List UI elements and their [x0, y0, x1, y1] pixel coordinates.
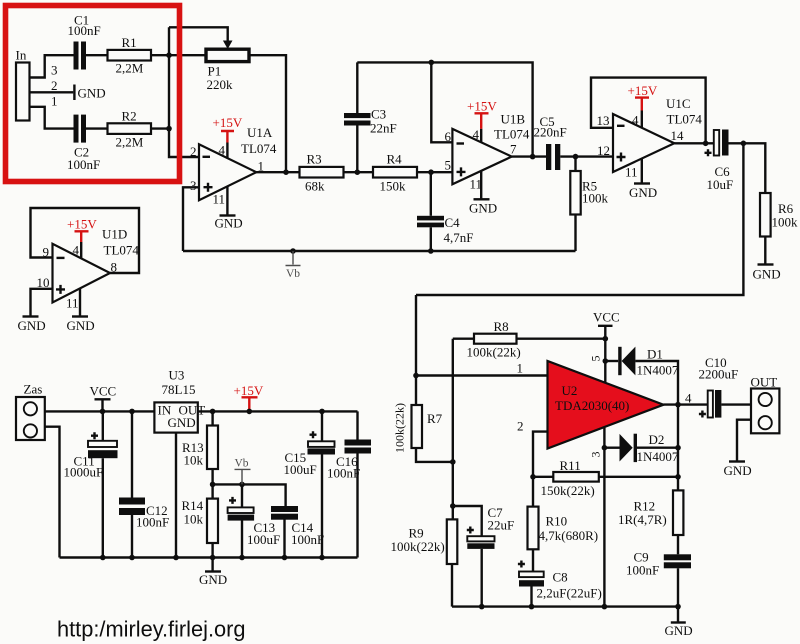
- svg-text:10k: 10k: [184, 453, 204, 468]
- svg-text:GND: GND: [168, 415, 196, 430]
- resistor R5: [570, 171, 580, 215]
- wire amp bottom rail: [452, 605, 678, 607]
- svg-text:220nF: 220nF: [534, 125, 567, 140]
- svg-text:R3: R3: [307, 152, 322, 167]
- wire C1 to R1: [86, 54, 108, 56]
- junction: [530, 154, 536, 160]
- plus sign U1B: [457, 167, 466, 176]
- svg-text:+15V: +15V: [213, 115, 243, 130]
- svg-text:100nF: 100nF: [291, 532, 324, 547]
- wire R9 to bottom rail: [451, 564, 453, 607]
- junction: [100, 555, 106, 561]
- svg-text:4: 4: [632, 113, 639, 128]
- plus mark C10: [699, 411, 706, 418]
- junction: [129, 409, 135, 415]
- wire junction down to C4: [430, 172, 432, 216]
- wire feedback down to pin6: [431, 62, 452, 142]
- op-amp U1B: [452, 129, 511, 184]
- svg-text:U1A: U1A: [247, 125, 273, 140]
- minus sign U1D: [57, 257, 65, 259]
- svg-text:4: 4: [685, 391, 692, 406]
- svg-text:C8: C8: [553, 570, 568, 585]
- wire R14 to bottom rail: [211, 543, 213, 558]
- junction: [173, 555, 179, 561]
- junction: [602, 445, 608, 451]
- capacitor C3: [344, 113, 371, 118]
- svg-text:100k(22k): 100k(22k): [393, 403, 407, 453]
- junction: [428, 248, 434, 254]
- svg-text:4,7k(680R): 4,7k(680R): [539, 528, 599, 543]
- junction: [741, 141, 747, 147]
- wire R11 right: [599, 476, 678, 478]
- op-amp U1A: [199, 144, 256, 200]
- svg-text:100uF: 100uF: [247, 532, 280, 547]
- ground U1B: [474, 198, 490, 200]
- wire pin2 of U2: [533, 432, 548, 477]
- wire R2 out: [151, 127, 169, 129]
- svg-text:4: 4: [473, 127, 480, 142]
- feedback wire U1B: [357, 62, 532, 156]
- op-amp U1C: [613, 114, 674, 172]
- junction: [166, 52, 172, 58]
- ground U1D pin10: [23, 315, 39, 317]
- junction: [283, 169, 289, 175]
- svg-text:Zas: Zas: [24, 382, 43, 397]
- svg-text:GND: GND: [629, 185, 657, 200]
- capacitor C7 polarized: [467, 536, 494, 541]
- svg-text:1: 1: [51, 94, 58, 109]
- wire R8 right to VCC node: [517, 338, 606, 340]
- junction: [247, 409, 253, 415]
- wire diode node down to R12: [677, 405, 679, 491]
- resistor R10: [532, 477, 534, 507]
- minus sign U1B: [457, 142, 465, 144]
- wire R6 to ground: [764, 237, 766, 265]
- svg-text:TL074: TL074: [494, 127, 530, 142]
- svg-text:1R(4,7R): 1R(4,7R): [618, 512, 667, 527]
- wire Zas pin1 to rail: [45, 410, 155, 412]
- capacitor C11 polarized: [102, 411, 104, 440]
- ground U1D pin11: [72, 315, 88, 317]
- svg-text:100nF: 100nF: [136, 515, 169, 530]
- svg-text:1000uF: 1000uF: [64, 465, 104, 480]
- wire R10 to C8: [532, 549, 534, 571]
- junction: [210, 482, 216, 488]
- pin 11 stub U1C: [641, 159, 643, 184]
- wire amp input node vertical: [415, 295, 417, 405]
- junction: [529, 604, 535, 610]
- ground U1A: [220, 214, 236, 216]
- junction: [573, 154, 579, 160]
- resistor R6: [760, 193, 771, 237]
- resistor R2: [108, 123, 152, 134]
- ground U1C: [634, 182, 650, 184]
- resistor R12: [673, 490, 683, 535]
- resistor R13: [211, 411, 213, 425]
- svg-text:7: 7: [510, 142, 517, 157]
- svg-text:2200uF: 2200uF: [699, 367, 739, 382]
- capacitor C6 polarized: [714, 130, 719, 156]
- wire U1D feedback loop: [31, 208, 140, 273]
- svg-text:VCC: VCC: [593, 310, 620, 325]
- svg-text:GND: GND: [215, 216, 243, 231]
- svg-text:100k(22k): 100k(22k): [391, 539, 445, 554]
- junction: [675, 604, 681, 610]
- connector Zas: [16, 397, 45, 440]
- svg-text:U3: U3: [169, 368, 185, 383]
- plus mark C7: [467, 527, 474, 534]
- minus sign U1A: [203, 156, 211, 158]
- wire R12 to C9: [677, 535, 679, 554]
- op-amp U1D: [53, 244, 111, 303]
- svg-text:12: 12: [597, 143, 610, 158]
- wire pin5 of U2: [604, 339, 606, 382]
- svg-text:In: In: [16, 48, 27, 63]
- svg-text:GND: GND: [753, 267, 781, 282]
- junction: [703, 141, 709, 147]
- junction: [450, 459, 456, 465]
- svg-text:2,2uF(22uF): 2,2uF(22uF): [537, 586, 602, 601]
- svg-text:11: 11: [625, 165, 638, 180]
- capacitor C16: [356, 411, 358, 557]
- svg-text:220k: 220k: [207, 77, 234, 92]
- junction: [129, 555, 135, 561]
- svg-text:VCC: VCC: [90, 384, 117, 399]
- svg-text:R2: R2: [122, 109, 137, 124]
- svg-text:2: 2: [51, 78, 58, 93]
- capacitor C14: [283, 520, 285, 558]
- svg-text:22uF: 22uF: [488, 518, 515, 533]
- diode D2: [604, 447, 619, 449]
- wire Vb rail: [183, 250, 576, 252]
- ground R6: [758, 263, 774, 265]
- pin 11 stub U1B: [480, 171, 482, 200]
- capacitor C4: [417, 216, 444, 221]
- capacitor C13 polarized: [241, 484, 243, 557]
- wire R13 to R14: [213, 469, 286, 506]
- svg-text:68k: 68k: [305, 179, 325, 194]
- svg-text:100nF: 100nF: [626, 563, 659, 578]
- net Vb tap: [286, 251, 301, 266]
- wire to P1 wiper: [169, 27, 228, 41]
- svg-text:100k: 100k: [582, 191, 609, 206]
- junction: [479, 604, 485, 610]
- wire R3 to R4: [344, 171, 374, 173]
- +15V supply U1C: [635, 98, 649, 111]
- svg-text:13: 13: [597, 113, 610, 128]
- capacitor C2: [74, 115, 79, 143]
- resistor R3: [300, 167, 344, 178]
- svg-text:2,2M: 2,2M: [116, 61, 144, 76]
- wire U1B output to C5: [512, 155, 546, 157]
- svg-text:8: 8: [111, 260, 118, 275]
- plus mark C8: [518, 561, 525, 568]
- wire P1 right to U1A output: [249, 55, 286, 172]
- capacitor C10 polarized: [708, 391, 713, 418]
- svg-text:TL074: TL074: [241, 141, 277, 156]
- feedback wire U1C pin13: [591, 78, 706, 144]
- svg-text:4: 4: [219, 143, 226, 158]
- wire R8 left: [453, 338, 474, 340]
- svg-text:3: 3: [51, 63, 58, 78]
- svg-text:OUT: OUT: [751, 375, 778, 390]
- svg-text:C4: C4: [445, 215, 461, 230]
- junction: [210, 409, 216, 415]
- ground (input): [73, 85, 75, 101]
- ground OUT: [729, 460, 745, 462]
- svg-text:GND: GND: [469, 201, 497, 216]
- junction: [675, 474, 681, 480]
- svg-text:+15V: +15V: [67, 217, 97, 232]
- svg-text:9: 9: [43, 245, 50, 260]
- svg-text:U2: U2: [562, 383, 578, 398]
- junction: [239, 482, 245, 488]
- capacitor C15 polarized: [321, 411, 323, 557]
- svg-text:GND: GND: [67, 318, 95, 333]
- svg-text:GND: GND: [724, 463, 752, 478]
- svg-text:100uF: 100uF: [284, 462, 317, 477]
- svg-text:R8: R8: [494, 319, 509, 334]
- svg-text:R10: R10: [546, 514, 568, 529]
- svg-text:14: 14: [671, 128, 685, 143]
- minus sign U1C: [617, 125, 625, 127]
- resistor R1: [108, 50, 152, 61]
- pin 4 stub U1C: [641, 111, 643, 129]
- svg-text:5: 5: [589, 356, 603, 362]
- svg-text:U1B: U1B: [501, 112, 526, 127]
- wire U3 out rail: [198, 410, 358, 412]
- junction: [450, 503, 456, 509]
- pin 11 stub U1A: [226, 186, 228, 215]
- +15V supply U1A: [221, 131, 234, 143]
- svg-text:100k(22k): 100k(22k): [467, 345, 521, 360]
- wire U2 output: [664, 403, 708, 405]
- ground amp: [677, 607, 679, 623]
- ground PSU: [211, 558, 213, 572]
- svg-text:R1: R1: [122, 35, 137, 50]
- svg-text:22nF: 22nF: [370, 121, 397, 136]
- wire R4 to U1B pin5: [417, 171, 452, 173]
- power amp U2: [548, 361, 664, 449]
- wire pin1 of U2: [416, 374, 548, 376]
- wire C6 to R6: [729, 143, 766, 193]
- wire to C7: [453, 506, 482, 536]
- svg-text:100nF: 100nF: [68, 23, 101, 38]
- wire C2 to R2: [86, 127, 108, 129]
- red highlight box: [6, 6, 180, 182]
- wire bottom rail PSU: [60, 556, 358, 558]
- svg-text:1N4007: 1N4007: [637, 449, 679, 464]
- svg-text:D1: D1: [647, 347, 663, 362]
- plus sign U1A: [204, 183, 213, 192]
- regulator U3: [154, 402, 197, 432]
- svg-text:3: 3: [589, 452, 603, 458]
- junction: [100, 409, 106, 415]
- junction: [602, 604, 608, 610]
- capacitor C8 polarized: [519, 572, 544, 578]
- connector In: [16, 63, 30, 121]
- svg-text:TL074: TL074: [667, 112, 703, 127]
- plus sign U1D: [56, 285, 65, 294]
- plus mark C15: [310, 431, 317, 438]
- svg-text:100nF: 100nF: [327, 466, 360, 481]
- svg-text:3: 3: [190, 178, 197, 193]
- svg-text:100nF: 100nF: [67, 157, 100, 172]
- diode D1: [605, 360, 618, 362]
- svg-text:U1D: U1D: [102, 227, 127, 242]
- junction: [239, 555, 245, 561]
- svg-text:R7: R7: [427, 411, 443, 426]
- junction: [530, 474, 536, 480]
- +15V supply U1B: [475, 113, 489, 128]
- wire Zas pin2 down to bottom rail: [45, 427, 60, 558]
- wire pin3 to Vb rail: [183, 187, 199, 251]
- svg-text:GND: GND: [78, 85, 106, 100]
- svg-text:78L15: 78L15: [162, 382, 196, 397]
- wire U3 GND to bottom rail: [175, 433, 177, 558]
- pin 4 stub U1B: [480, 129, 482, 143]
- svg-text:11: 11: [66, 296, 79, 311]
- wire U1A output to R3: [256, 171, 299, 173]
- junction: [166, 126, 172, 132]
- plus mark C11: [91, 432, 98, 439]
- svg-text:R11: R11: [560, 458, 581, 473]
- plus mark C13: [229, 497, 236, 504]
- svg-text:150k(22k): 150k(22k): [541, 483, 595, 498]
- wire C10 to OUT: [721, 403, 751, 405]
- wire R7 bottom to feedback node: [416, 448, 453, 462]
- +15V supply U1D: [75, 231, 89, 242]
- svg-text:Vb: Vb: [286, 268, 300, 280]
- junction: [428, 169, 434, 175]
- wire C4 to Vb rail: [430, 227, 432, 251]
- capacitor C12: [131, 411, 133, 557]
- wire R11 left: [533, 476, 553, 478]
- resistor R11: [553, 472, 599, 482]
- svg-text:C3: C3: [371, 107, 386, 122]
- junction: [290, 248, 296, 254]
- svg-text:+15V: +15V: [234, 383, 264, 398]
- wire R5 to Vb rail: [574, 215, 576, 252]
- connector OUT: [751, 389, 779, 434]
- wire pin3 of U2 down: [603, 428, 605, 607]
- svg-text:http:/mirley.firlej.org: http:/mirley.firlej.org: [57, 617, 246, 642]
- resistor R7: [412, 405, 423, 448]
- junction: [210, 555, 216, 561]
- svg-text:150k: 150k: [380, 179, 407, 194]
- wire U1C output to C6: [674, 142, 714, 144]
- potentiometer P1: [206, 49, 249, 61]
- svg-text:R4: R4: [387, 152, 403, 167]
- wire feedback vertical: [452, 339, 454, 520]
- resistor R8: [474, 334, 517, 344]
- wire node joining R1,R2 down to U1A pin2: [169, 27, 199, 157]
- junction: [603, 336, 609, 342]
- svg-text:TL074: TL074: [104, 243, 140, 258]
- wire pin2 of In to GND: [30, 91, 74, 93]
- pin 4 stub U1D: [80, 242, 82, 258]
- svg-text:5: 5: [445, 158, 452, 173]
- svg-text:4,7nF: 4,7nF: [444, 230, 474, 245]
- junction: [319, 555, 325, 561]
- svg-text:4: 4: [73, 243, 80, 258]
- svg-text:6: 6: [445, 129, 452, 144]
- junction: [675, 402, 681, 408]
- svg-text:11: 11: [470, 177, 483, 192]
- svg-text:GND: GND: [199, 572, 227, 587]
- svg-text:GND: GND: [665, 623, 693, 638]
- svg-text:10uF: 10uF: [707, 177, 734, 192]
- svg-text:+15V: +15V: [628, 83, 658, 98]
- junction: [319, 409, 325, 415]
- junction: [675, 445, 681, 451]
- wire pin10 to ground: [31, 289, 53, 317]
- wire pin1 of In to C2: [30, 107, 74, 129]
- svg-text:U1C: U1C: [666, 96, 691, 111]
- svg-text:GND: GND: [18, 318, 46, 333]
- pin 11 stub U1D: [79, 289, 81, 317]
- svg-text:2: 2: [517, 419, 524, 434]
- junction: [282, 555, 288, 561]
- plus mark C6: [705, 149, 712, 156]
- wire pin3 of In to C1: [30, 55, 74, 77]
- resistor R14: [207, 499, 218, 543]
- resistor R9: [447, 519, 458, 564]
- svg-text:11: 11: [213, 192, 226, 207]
- junction: [413, 373, 419, 379]
- junction: [429, 60, 435, 66]
- svg-text:+15V: +15V: [467, 99, 497, 114]
- svg-text:2,2M: 2,2M: [116, 135, 144, 150]
- svg-text:1N4007: 1N4007: [637, 363, 679, 378]
- capacitor C9: [664, 554, 691, 560]
- wire C5 to U1C pin12: [560, 157, 613, 171]
- capacitor C5: [546, 144, 551, 170]
- svg-text:Vb: Vb: [235, 458, 249, 470]
- resistor R4: [373, 167, 417, 178]
- junction: [603, 358, 609, 364]
- wire R1 to P1: [151, 54, 206, 56]
- svg-text:10k: 10k: [184, 512, 204, 527]
- svg-text:D2: D2: [649, 432, 665, 447]
- junction: [355, 169, 361, 175]
- wire C6 node down to power amp: [416, 143, 743, 295]
- plus sign U1C: [617, 153, 626, 162]
- wire junction up through C3 to feedback: [356, 62, 358, 172]
- svg-text:TDA2030(40): TDA2030(40): [555, 398, 629, 413]
- svg-text:2: 2: [190, 144, 197, 159]
- svg-text:100k: 100k: [772, 215, 799, 230]
- svg-text:1: 1: [517, 361, 524, 376]
- wire OUT pin2 to ground: [737, 420, 751, 462]
- pin 4 stub U1A: [226, 143, 228, 159]
- capacitor C1: [74, 42, 79, 70]
